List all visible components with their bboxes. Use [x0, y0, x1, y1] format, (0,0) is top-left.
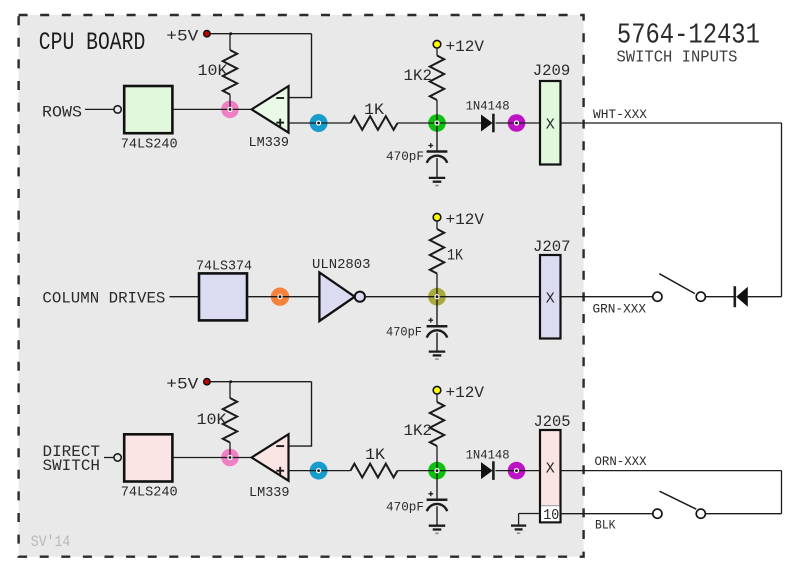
node (green) divider junction (direct) [428, 462, 446, 480]
resistor 1K series (rows) [351, 116, 398, 130]
switch lever (direct) [660, 491, 697, 509]
svg-text:ORN-XXX: ORN-XXX [595, 454, 647, 469]
svg-text:10K: 10K [198, 62, 228, 80]
connector J209 [540, 81, 561, 165]
junction +5V/10K (direct) [229, 380, 232, 383]
wire diode to J205 [496, 470, 540, 472]
junction dot 9 [434, 468, 439, 473]
node (cyan) comparator + input (direct) [310, 462, 328, 480]
svg-text:SWITCH: SWITCH [43, 457, 101, 475]
connector J205 [540, 430, 561, 522]
input bubble at 74LS240 (rows) [114, 106, 121, 113]
svg-text:1K: 1K [365, 446, 385, 464]
wire 1K to divider node (direct) [398, 470, 482, 472]
svg-text:GRN-XXX: GRN-XXX [593, 302, 647, 317]
wire switch to matrix diode [705, 296, 733, 298]
capacitor 470pF (columns) [436, 297, 438, 327]
svg-text:1K: 1K [364, 101, 384, 119]
+12V supply (direct) [433, 386, 441, 394]
node (magenta) at J205 (direct) [508, 462, 526, 480]
svg-text:X: X [546, 461, 555, 478]
svg-text:LM339: LM339 [249, 135, 290, 151]
junction dot 5 [277, 294, 282, 299]
svg-text:1N4148: 1N4148 [466, 99, 510, 114]
svg-text:X: X [546, 291, 555, 308]
svg-text:+12V: +12V [446, 38, 485, 56]
node (magenta) at J209 (rows) [508, 114, 526, 132]
junction dot 1 [227, 107, 232, 112]
junction dot 2 [316, 120, 321, 125]
wire COLUMN DRIVES to 74LS374 [170, 296, 200, 298]
comparator LM339 (direct) [252, 434, 289, 481]
switch lever (columns) [659, 274, 695, 294]
capacitor 470pF (rows) [436, 123, 438, 152]
resistor 1K2 to +12V (rows) [436, 48, 438, 56]
svg-text:+5V: +5V [166, 27, 198, 45]
resistor 10K pullup (rows) [229, 34, 231, 50]
junction dot 10 [514, 468, 519, 473]
resistor 1K series (direct) [351, 464, 398, 478]
wire matrix column-to-row vertical [781, 123, 783, 297]
svg-text:10: 10 [543, 507, 559, 524]
svg-text:LM339: LM339 [249, 485, 290, 501]
svg-text:J205: J205 [534, 413, 571, 431]
ground (columns cap) [429, 350, 446, 352]
diode 1N4148 (direct) [481, 462, 493, 479]
node (green) divider junction (rows) [428, 114, 446, 132]
junction +5V/10K (rows) [229, 32, 232, 35]
svg-text:J207: J207 [533, 238, 571, 256]
svg-text:470pF: 470pF [386, 500, 424, 515]
svg-text:1K2: 1K2 [404, 422, 433, 440]
+12V supply (columns) [433, 213, 441, 221]
CPU board boundary (dashed box, gray fill) [19, 15, 584, 557]
wire direct switch return vertical [781, 471, 783, 514]
wire ROWS to input bubble [85, 108, 114, 110]
wire ORN-XXX net [560, 470, 782, 472]
svg-text:+12V: +12V [446, 211, 485, 229]
input bubble at 74LS240 (direct) [114, 454, 121, 461]
wire diode to J209 [496, 122, 541, 124]
wire DIRECT SWITCH to input bubble [104, 457, 114, 459]
ground (rows cap) [429, 177, 446, 179]
node (cyan) comparator + input (rows) [310, 114, 328, 132]
junction dot 6 [434, 294, 439, 299]
svg-text:ROWS: ROWS [42, 103, 82, 121]
buffer U-74LS240 (direct) [124, 434, 172, 481]
switch contact left (columns) [653, 292, 662, 301]
resistor 1K2 to +12V (direct) [436, 394, 438, 402]
ground (direct cap) [429, 525, 446, 527]
junction dot 3 [434, 120, 439, 125]
wire 74LS240 to LM339 output [172, 108, 251, 110]
svg-text:J209: J209 [533, 62, 571, 80]
svg-text:+12V: +12V [446, 384, 485, 402]
wire LM339 + input to 1K (rows) [289, 122, 351, 124]
wire J205 pin10 to ground [519, 513, 540, 515]
node (pink) LM339 out / 10K pullup (rows) [221, 101, 239, 119]
comparator LM339 (rows) [252, 86, 289, 133]
svg-text:74LS240: 74LS240 [121, 485, 178, 501]
wire ULN2803 to J207 [365, 296, 540, 298]
switch contact left (direct) [653, 509, 662, 518]
capacitor 470pF (direct) [436, 471, 438, 500]
svg-text:74LS374: 74LS374 [196, 259, 252, 275]
junction dot 8 [316, 468, 321, 473]
switch contact right (columns) [696, 292, 705, 301]
latch U-74LS374 [199, 273, 247, 320]
wire 74LS240 to LM339 output (direct) [172, 457, 251, 459]
driver ULN2803 (triangle buffer) [319, 272, 354, 321]
svg-text:1N4148: 1N4148 [466, 448, 510, 463]
matrix diode (cathode left) [733, 286, 736, 307]
wire feedback - input to +5V (direct) [289, 382, 312, 446]
svg-text:1K2: 1K2 [404, 67, 433, 85]
+12V supply (rows) [433, 40, 441, 48]
svg-text:+5V: +5V [166, 375, 198, 393]
svg-text:CPU BOARD: CPU BOARD [39, 28, 146, 57]
node (pink) LM339 out / 10K pullup (direct) [221, 449, 239, 467]
svg-text:COLUMN DRIVES: COLUMN DRIVES [42, 290, 165, 308]
node (orange) latch output [271, 288, 289, 306]
connector J207 [540, 255, 561, 339]
svg-text:X: X [546, 117, 555, 134]
svg-text:1K: 1K [447, 247, 463, 265]
buffer U-74LS240 (rows) [124, 86, 172, 133]
wire +5V rail (direct) [210, 381, 311, 383]
svg-text:470pF: 470pF [386, 324, 422, 339]
wire +5V rail (rows) [210, 33, 311, 35]
wire 74LS374 to ULN2803 [247, 296, 319, 298]
inverter bubble ULN2803 [355, 292, 365, 302]
wire 1K to divider node (rows) [398, 122, 482, 124]
diode 1N4148 (rows) [481, 115, 493, 132]
svg-text:BLK: BLK [595, 518, 616, 533]
ground (J205 pin10) [518, 514, 520, 526]
svg-text:SWITCH INPUTS: SWITCH INPUTS [617, 47, 738, 66]
svg-text:ULN2803: ULN2803 [312, 257, 371, 273]
wire WHT-XXX net [561, 122, 782, 124]
wire LM339 + input to 1K (direct) [289, 470, 351, 472]
junction dot 4 [514, 120, 519, 125]
svg-text:74LS240: 74LS240 [121, 136, 178, 152]
junction dot 7 [227, 455, 232, 460]
wire GRN-XXX net [561, 296, 653, 298]
svg-text:WHT-XXX: WHT-XXX [593, 107, 647, 122]
svg-text:10K: 10K [197, 411, 227, 429]
wire feedback - input to +5V (rows) [289, 34, 312, 98]
svg-text:470pF: 470pF [386, 149, 424, 164]
wire BLK net [561, 513, 653, 515]
svg-text:SV'14: SV'14 [31, 533, 71, 551]
pin 10 divider J205 [541, 505, 560, 507]
wire matrix diode to row net [748, 296, 782, 298]
resistor 10K pullup (direct) [229, 382, 231, 398]
resistor 1K to +12V (columns) [436, 221, 438, 229]
node (olive) column drive junction [428, 288, 446, 306]
switch contact right (direct) [696, 509, 705, 518]
